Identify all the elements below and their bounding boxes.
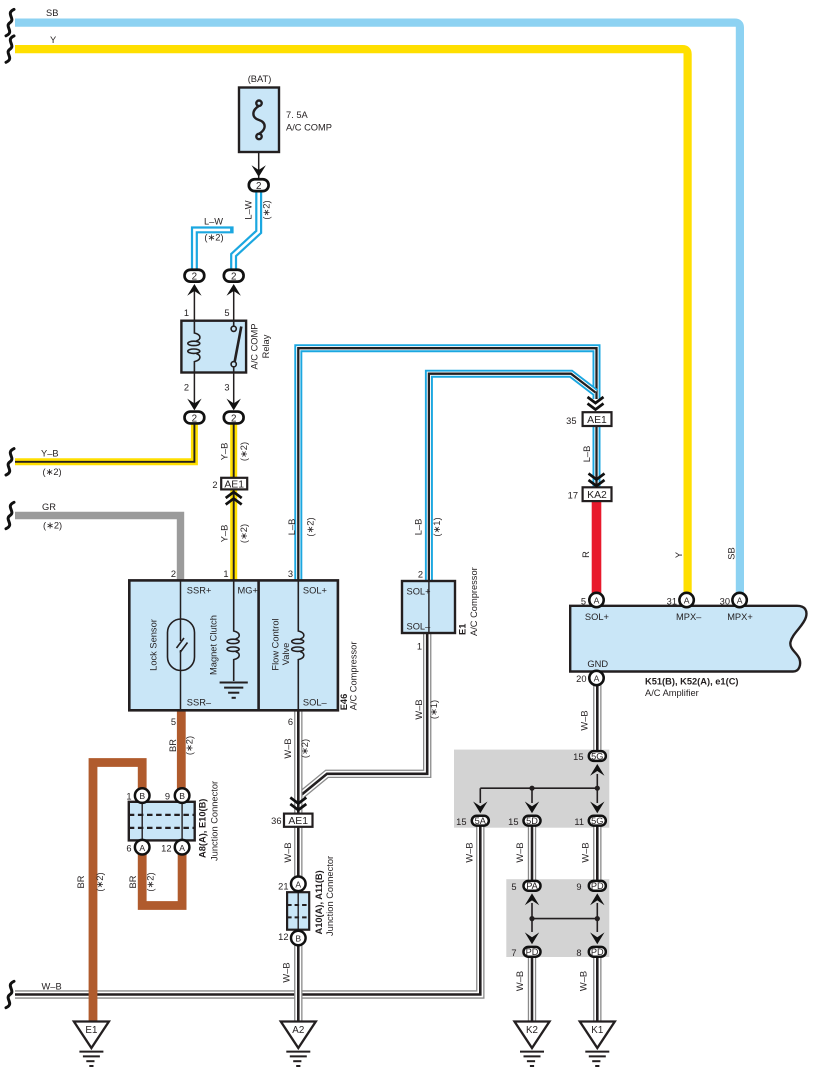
svg-text:11: 11	[574, 817, 584, 827]
svg-text:5: 5	[171, 717, 176, 727]
svg-text:MPX–: MPX–	[676, 612, 702, 622]
amplifier pin circle 31 A	[679, 593, 693, 607]
svg-text:Junction Connector: Junction Connector	[209, 781, 219, 861]
wire L-W from fuse oval down diagonal to relay oval (pin5 side)	[234, 190, 259, 269]
svg-text:Lock Sensor: Lock Sensor	[148, 619, 158, 671]
connector oval PD(7)	[524, 947, 541, 957]
svg-text:17: 17	[568, 491, 578, 501]
svg-text:AE1: AE1	[288, 816, 308, 827]
E1 A/C Compressor box	[402, 581, 455, 633]
connector oval 5D(15)	[524, 816, 541, 826]
ground A2	[281, 1022, 316, 1067]
connector oval 5G(11)	[589, 816, 606, 826]
E46 A/C Compressor box	[129, 580, 338, 710]
wire L-B from AE1(35) down to KA2(17)	[593, 426, 601, 488]
lock sensor break marks	[177, 638, 188, 653]
svg-text:30: 30	[720, 597, 730, 607]
connector oval PD(8)	[589, 947, 606, 957]
ground K1	[580, 1022, 615, 1067]
svg-text:W–B: W–B	[283, 738, 293, 758]
arrow up into 5G(15)	[590, 764, 604, 776]
arrow down into fuse output connector	[252, 165, 266, 177]
svg-text:B: B	[295, 934, 301, 944]
svg-text:31: 31	[667, 597, 677, 607]
wire stubs relay top	[194, 291, 233, 321]
svg-text:9: 9	[165, 792, 170, 802]
svg-text:L–W: L–W	[243, 200, 253, 219]
svg-text:R: R	[581, 551, 591, 558]
svg-text:W–B: W–B	[580, 842, 590, 862]
svg-text:Y: Y	[50, 35, 56, 45]
svg-text:5G: 5G	[591, 751, 603, 761]
connector box AE1 pin36	[284, 814, 313, 827]
svg-text:2: 2	[418, 570, 423, 580]
svg-text:MG+: MG+	[238, 586, 258, 596]
panel1 thin bus lines	[480, 774, 597, 803]
magnet clutch coil	[227, 580, 239, 681]
svg-text:Y–B: Y–B	[219, 525, 229, 543]
connector oval 2 (relay pin2 out)	[185, 412, 205, 425]
relay A/C COMP box	[181, 321, 246, 373]
svg-text:A/C COMP: A/C COMP	[286, 123, 332, 133]
svg-text:12: 12	[161, 844, 171, 854]
svg-text:Magnet Clutch: Magnet Clutch	[208, 615, 218, 675]
svg-text:L–B: L–B	[582, 446, 592, 463]
arrow up into relay-top left oval	[187, 284, 201, 296]
svg-text:Y–B: Y–B	[219, 443, 229, 461]
shaded panel 2	[506, 879, 609, 957]
connector oval 5G(15)	[589, 751, 606, 761]
svg-text:7: 7	[511, 948, 516, 958]
svg-text:W–B: W–B	[281, 962, 291, 982]
junction dot panel2 right	[595, 916, 600, 921]
svg-text:B: B	[179, 791, 185, 801]
relay coil	[188, 321, 200, 373]
lock sensor stadium symbol	[168, 619, 195, 671]
svg-text:Y: Y	[674, 552, 684, 558]
wire W-B from PD(8) down to K1 ground	[593, 957, 601, 1022]
svg-text:SOL–: SOL–	[303, 698, 328, 708]
svg-text:BR: BR	[168, 739, 178, 752]
wire R (red) from KA2 down to amplifier pin 5 SOL+	[592, 501, 602, 594]
lock sensor wire	[180, 580, 182, 710]
wire-break squiggle W-B	[6, 981, 14, 1007]
svg-text:K2: K2	[526, 1025, 538, 1036]
fuse 7.5A A/C COMP (BAT) box	[239, 88, 279, 153]
svg-text:K51(B), K52(A), e1(C): K51(B), K52(A), e1(C)	[645, 677, 739, 687]
ground K2	[515, 1022, 550, 1067]
connector box KA2 pin17	[583, 487, 612, 501]
amplifier pin circle 20 A	[589, 671, 603, 685]
connector oval 5A(15)	[472, 816, 489, 826]
svg-text:Flow Control: Flow Control	[271, 618, 281, 670]
A/C Amplifier box (torn right edge)	[570, 606, 806, 672]
svg-text:(∗2): (∗2)	[204, 233, 223, 243]
arrow down into PD(7)	[525, 932, 539, 944]
svg-text:E1: E1	[457, 624, 467, 635]
junction pin circle B(9)	[175, 788, 190, 803]
junction pin circle B(1)	[135, 788, 150, 803]
arrow up into relay-top right oval	[227, 284, 241, 296]
E1 internal wire	[428, 581, 430, 633]
svg-text:GND: GND	[587, 659, 608, 669]
svg-text:5: 5	[581, 597, 586, 607]
svg-text:Relay: Relay	[261, 334, 271, 358]
junction pin circle A(12)	[175, 840, 190, 855]
wire-break squiggle Y	[6, 36, 14, 62]
wire-break squiggle SB	[6, 9, 14, 35]
svg-text:(∗2): (∗2)	[239, 524, 249, 543]
svg-text:SOL+: SOL+	[585, 612, 609, 622]
svg-text:SSR–: SSR–	[187, 698, 212, 708]
svg-text:A10(A), A11(B): A10(A), A11(B)	[314, 870, 324, 934]
svg-text:A/C Compressor: A/C Compressor	[348, 642, 358, 711]
double chevron down above KA2	[589, 474, 605, 487]
connector oval 2 (fuse output)	[249, 179, 269, 192]
svg-text:W–B: W–B	[464, 842, 474, 862]
svg-text:(∗1): (∗1)	[429, 700, 439, 719]
wire W-B horizontal run to ground E1/A2 area (from 5A branch)	[15, 824, 480, 995]
svg-text:(∗2): (∗2)	[261, 200, 271, 219]
svg-text:A: A	[295, 879, 301, 889]
junction A8 dashed bus lines	[129, 815, 195, 828]
svg-text:8: 8	[576, 948, 581, 958]
wire GR from left edge to E46 pin2 SSR+	[15, 516, 181, 581]
svg-text:1: 1	[184, 308, 189, 318]
svg-text:Valve: Valve	[281, 643, 291, 666]
svg-text:E1: E1	[85, 1025, 97, 1036]
svg-text:W–B: W–B	[515, 842, 525, 862]
svg-text:5D: 5D	[526, 816, 538, 826]
wire-break squiggle Y-B	[6, 449, 14, 475]
junction pin circle B(12)	[291, 931, 306, 946]
svg-text:B: B	[139, 791, 145, 801]
svg-text:6: 6	[126, 844, 131, 854]
svg-text:(BAT): (BAT)	[248, 74, 272, 84]
svg-text:9: 9	[576, 882, 581, 892]
arrow down into relay-bottom right oval	[227, 399, 241, 411]
svg-text:A/C Compressor: A/C Compressor	[469, 567, 479, 636]
svg-text:AE1: AE1	[224, 479, 244, 490]
wire W-B from E46 pin6 down through AE1(36), A10 junction to A2 ground	[294, 710, 302, 1023]
svg-text:W–B: W–B	[283, 842, 293, 862]
svg-text:PD: PD	[591, 947, 604, 957]
svg-text:1: 1	[417, 642, 422, 652]
svg-text:A/C Amplifier: A/C Amplifier	[645, 688, 699, 698]
svg-text:PA: PA	[526, 881, 538, 891]
svg-text:15: 15	[456, 817, 466, 827]
svg-text:1: 1	[126, 792, 131, 802]
svg-text:W–B: W–B	[579, 971, 589, 991]
junction connector A8(A) E10(B) box	[129, 802, 195, 841]
svg-text:PD: PD	[591, 881, 604, 891]
svg-text:5G: 5G	[591, 816, 603, 826]
connector oval 2 (relay pin3 out)	[224, 412, 244, 425]
svg-text:L–W: L–W	[204, 217, 223, 227]
svg-text:W–B: W–B	[580, 710, 590, 730]
arrow down into PD(8)	[590, 932, 604, 944]
double chevron down above AE1(35)	[588, 397, 604, 410]
junction dot panel1 left	[529, 786, 534, 791]
flow control valve coil	[292, 580, 304, 710]
svg-text:(∗2): (∗2)	[145, 872, 155, 891]
svg-text:SB: SB	[726, 547, 736, 559]
wire from fuse to connector oval	[258, 152, 260, 178]
svg-text:(∗1): (∗1)	[432, 517, 442, 536]
svg-text:15: 15	[508, 817, 518, 827]
svg-text:15: 15	[573, 752, 583, 762]
wire W-B from amplifier GND pin 20 down to 5G	[593, 684, 601, 751]
junction connector A10(A) A11(B) box	[287, 892, 309, 930]
svg-text:Y–B: Y–B	[41, 449, 59, 459]
svg-text:SOL–: SOL–	[407, 622, 432, 632]
svg-text:A: A	[594, 595, 600, 605]
svg-text:(∗2): (∗2)	[185, 736, 195, 755]
svg-text:3: 3	[224, 383, 229, 393]
connector box AE1 pin35	[583, 412, 612, 426]
svg-text:Junction Connector: Junction Connector	[325, 856, 335, 936]
svg-text:2: 2	[171, 569, 176, 579]
shaded panel 1	[454, 750, 609, 828]
svg-text:5: 5	[224, 308, 229, 318]
svg-text:SOL+: SOL+	[303, 586, 327, 596]
wire BR from E46 pin5 SSR- down to junction B(9)	[177, 710, 186, 790]
svg-text:K1: K1	[591, 1025, 603, 1036]
svg-text:W–B: W–B	[414, 699, 424, 719]
svg-text:20: 20	[576, 674, 586, 684]
svg-text:A: A	[139, 843, 145, 853]
magnet clutch internal ground	[220, 683, 248, 698]
svg-text:A8(A), E10(B): A8(A), E10(B)	[198, 799, 208, 858]
arrow up into PD(9)	[590, 893, 604, 905]
svg-text:BR: BR	[128, 875, 138, 888]
wire L-B (*1) from E1 compressor pin2 up and right merging toward AE1(35)	[429, 374, 596, 581]
E46 section divider	[257, 580, 260, 710]
svg-text:BR: BR	[76, 875, 86, 888]
svg-text:MPX+: MPX+	[727, 612, 753, 622]
svg-text:A: A	[594, 673, 600, 683]
svg-text:L–B: L–B	[287, 519, 297, 536]
svg-text:(∗2): (∗2)	[300, 739, 310, 758]
svg-text:(∗2): (∗2)	[95, 872, 105, 891]
arrow down into 5A	[473, 802, 487, 814]
svg-text:3: 3	[288, 569, 293, 579]
svg-text:35: 35	[566, 416, 576, 426]
svg-text:SB: SB	[46, 8, 58, 18]
amplifier pin circle 30 A	[732, 593, 746, 607]
arrow down into 5G(11)	[590, 802, 604, 814]
junction A8 internal wires	[142, 802, 182, 841]
svg-text:A: A	[179, 843, 185, 853]
svg-text:5: 5	[511, 882, 516, 892]
panel2 thin bus lines	[532, 903, 597, 932]
wire L-W branch to relay oval (pin1 side)	[194, 230, 233, 269]
arrow up into PA(5)	[525, 893, 539, 905]
wire W-B from PD(7) down to K2 ground	[528, 957, 536, 1022]
svg-text:W–B: W–B	[515, 971, 525, 991]
svg-text:PD: PD	[526, 947, 539, 957]
double chevron down above AE1(36)	[290, 798, 306, 811]
svg-text:A: A	[684, 595, 690, 605]
svg-text:(∗2): (∗2)	[239, 442, 249, 461]
svg-text:12: 12	[278, 932, 288, 942]
wire stubs relay bottom	[194, 373, 233, 405]
svg-text:A: A	[737, 595, 743, 605]
svg-text:2: 2	[192, 272, 197, 283]
junction dot panel1 right	[595, 786, 600, 791]
junction A10 dashed bus lines	[287, 905, 309, 917]
svg-text:1: 1	[223, 569, 228, 579]
svg-text:(∗2): (∗2)	[43, 467, 62, 477]
svg-text:SSR+: SSR+	[187, 586, 212, 596]
arrow down into 5D	[525, 802, 539, 814]
connector oval 2 (relay pin1 feed)	[185, 270, 205, 283]
svg-text:21: 21	[278, 882, 288, 892]
svg-text:2: 2	[192, 413, 197, 424]
svg-text:(∗2): (∗2)	[43, 521, 62, 531]
svg-text:6: 6	[288, 717, 293, 727]
fuse element symbol	[253, 101, 264, 140]
wire W-B from 5D down to PA	[528, 826, 536, 881]
svg-text:A/C COMP: A/C COMP	[250, 324, 260, 370]
svg-text:AE1: AE1	[587, 415, 607, 426]
wire L-B (*2) from E46 pin3 SOL+ up and right to AE1(35)	[298, 348, 596, 580]
svg-text:2: 2	[231, 272, 236, 283]
svg-text:L–B: L–B	[414, 519, 424, 536]
svg-text:2: 2	[184, 383, 189, 393]
junction dot panel2 left	[529, 916, 534, 921]
svg-text:2: 2	[231, 413, 236, 424]
amplifier pin circle 5 A	[589, 593, 603, 607]
wire BR loop from junction A(12) down, left, up to A(6)	[142, 853, 182, 906]
svg-text:7. 5A: 7. 5A	[286, 110, 309, 120]
svg-text:2: 2	[256, 181, 261, 192]
svg-text:KA2: KA2	[587, 490, 607, 501]
wire BR from junction B(1) up, left, down to E1 ground	[93, 763, 142, 1023]
svg-text:A2: A2	[292, 1025, 304, 1036]
wire Y-B from relay pin3 oval through AE1(2) to E46 pin1 MG+	[230, 423, 237, 580]
svg-text:5A: 5A	[475, 816, 487, 826]
ground E1	[74, 1022, 109, 1067]
connector oval PA(5)	[524, 881, 541, 891]
arrow down into relay-bottom left oval	[187, 399, 201, 411]
wire-break squiggle GR	[6, 502, 14, 528]
junction A10 internal wire	[297, 892, 299, 930]
wire W-B from 5G(11) down to PD(9)	[593, 826, 601, 881]
relay switch	[231, 321, 241, 373]
svg-text:GR: GR	[42, 502, 56, 512]
wire Y-B from relay pin2 oval to left edge	[15, 423, 194, 462]
connector oval PD(9)	[589, 881, 606, 891]
svg-text:SOL+: SOL+	[407, 587, 431, 597]
junction pin circle A(6)	[135, 840, 150, 855]
junction pin circle A(21)	[291, 877, 306, 892]
svg-text:2: 2	[212, 480, 217, 490]
double chevron up below AE1(2)	[226, 492, 242, 505]
wire SB (light blue) from left edge to amplifier pin 30	[15, 23, 740, 594]
wire W-B from E1 compressor pin1, turns left and merges (diagonal)	[302, 633, 428, 795]
connector box AE1 pin2	[221, 478, 247, 491]
connector oval 2 (relay pin5 feed)	[224, 270, 244, 283]
svg-text:36: 36	[271, 816, 281, 826]
svg-text:(∗2): (∗2)	[305, 517, 315, 536]
svg-text:W–B: W–B	[42, 982, 62, 992]
wire Y (yellow) from left edge to amplifier pin 31	[15, 49, 688, 593]
